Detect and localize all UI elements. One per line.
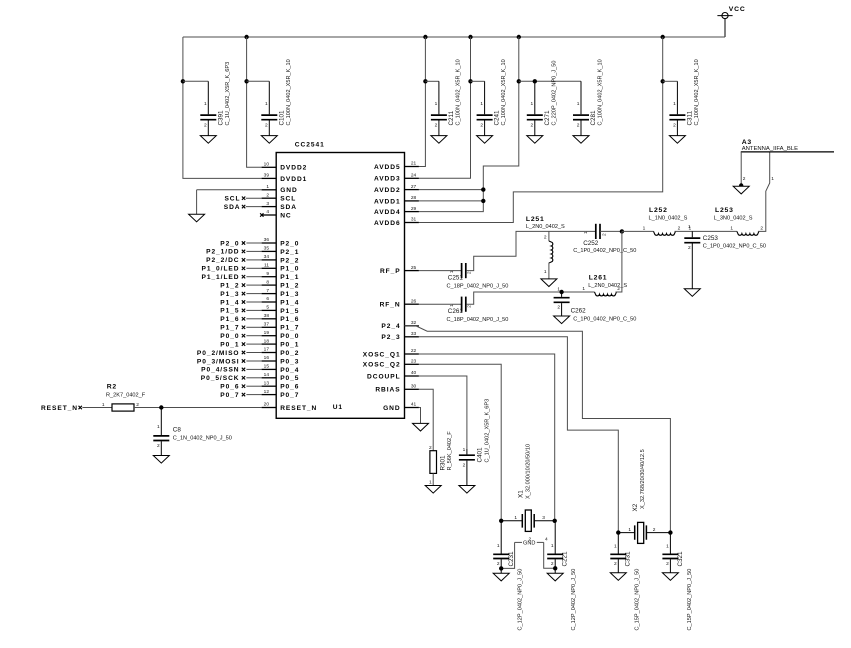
svg-text:P0_5: P0_5 <box>280 375 299 382</box>
svg-text:1: 1 <box>551 543 554 549</box>
svg-text:27: 27 <box>411 184 417 190</box>
svg-text:R301: R301 <box>439 455 446 471</box>
svg-text:C221: C221 <box>561 551 568 567</box>
node X2 pin2 node <box>668 530 672 534</box>
ground C281 <box>573 136 589 144</box>
no-connect x P2_2/DC <box>242 258 245 261</box>
svg-text:C_1U_0402_X5R_K_6P3: C_1U_0402_X5R_K_6P3 <box>484 399 490 463</box>
wire P1_6 <box>246 318 261 320</box>
wire P1_5 <box>246 309 261 311</box>
svg-text:P1_3: P1_3 <box>280 291 299 298</box>
svg-text:R_2K7_0402_F: R_2K7_0402_F <box>106 393 146 399</box>
wire branch to C391 <box>183 80 208 82</box>
svg-text:C_15P_0402_NP0_J_50: C_15P_0402_NP0_J_50 <box>634 569 640 631</box>
svg-text:P2_2/DC: P2_2/DC <box>206 257 239 264</box>
svg-text:P2_1/DD: P2_1/DD <box>206 249 239 256</box>
svg-text:25: 25 <box>411 265 417 271</box>
svg-text:12: 12 <box>264 389 270 395</box>
svg-text:2: 2 <box>531 122 534 128</box>
svg-text:40: 40 <box>411 370 417 376</box>
svg-text:1: 1 <box>582 286 585 292</box>
svg-text:23: 23 <box>411 359 417 365</box>
node C101 tap <box>244 79 248 83</box>
wire net VCC top rail <box>183 36 725 38</box>
svg-text:P1_2: P1_2 <box>220 282 239 289</box>
no-connect x P1_4 <box>242 300 245 303</box>
svg-text:C_12P_0402_NP0_J_50: C_12P_0402_NP0_J_50 <box>571 569 577 631</box>
wire RESET_N to R2 <box>82 407 112 409</box>
svg-text:2: 2 <box>429 445 432 451</box>
no-connect x P0_2/MISO <box>242 351 245 354</box>
svg-text:11: 11 <box>264 263 269 269</box>
wire L251 bottom lead <box>548 263 550 279</box>
node VCC rail junction x=518.8 <box>517 35 521 39</box>
no-connect x P1_5 <box>242 309 245 312</box>
svg-text:C_100N_0402_X5R_K_10: C_100N_0402_X5R_K_10 <box>501 59 507 125</box>
svg-text:1: 1 <box>429 479 432 485</box>
capacitor C8 <box>153 408 169 456</box>
svg-text:AVDD2: AVDD2 <box>374 187 401 194</box>
capacitor C252 <box>596 224 600 239</box>
svg-text:P0_7: P0_7 <box>220 392 239 399</box>
svg-text:P0_4: P0_4 <box>280 367 299 374</box>
svg-text:13: 13 <box>264 380 270 386</box>
svg-text:1: 1 <box>435 101 438 107</box>
svg-text:1: 1 <box>480 101 483 107</box>
svg-text:36: 36 <box>264 237 270 243</box>
svg-text:XOSC_Q2: XOSC_Q2 <box>363 362 401 369</box>
svg-text:SDA: SDA <box>224 204 241 211</box>
svg-text:1: 1 <box>449 270 455 273</box>
wire P2_0 <box>246 242 261 244</box>
wire VCC to DVDD1 pin39 <box>183 37 262 178</box>
ground C321 <box>662 573 678 581</box>
svg-text:RF_N: RF_N <box>380 302 401 309</box>
wire RF_P to C251 <box>419 270 462 272</box>
svg-text:C_1U_0402_X5R_K_6P3: C_1U_0402_X5R_K_6P3 <box>225 62 231 126</box>
svg-text:RBIAS: RBIAS <box>375 387 400 394</box>
svg-text:1: 1 <box>577 101 580 107</box>
svg-text:RF_P: RF_P <box>380 268 401 275</box>
node VCC rail junction x=662.7 <box>661 35 665 39</box>
capacitor C331 <box>610 533 626 573</box>
wire P0_2/MISO <box>246 352 261 354</box>
svg-text:2: 2 <box>529 536 532 542</box>
svg-text:41: 41 <box>411 402 417 408</box>
svg-text:2: 2 <box>653 527 656 533</box>
svg-text:P2_0: P2_0 <box>280 240 299 247</box>
svg-text:1: 1 <box>449 304 455 307</box>
wire P1_3 <box>246 293 261 295</box>
wire P0_5/SCK <box>246 377 261 379</box>
svg-text:2: 2 <box>602 233 608 236</box>
wire P2_4 to X2 pin2 <box>405 326 671 533</box>
svg-text:C321: C321 <box>677 551 684 567</box>
svg-text:P1_7: P1_7 <box>220 325 239 332</box>
ground pin1 GND <box>189 214 205 222</box>
svg-text:P2_3: P2_3 <box>381 334 400 341</box>
capacitor C101 <box>261 81 277 135</box>
svg-text:2: 2 <box>136 402 139 408</box>
power symbol VCC <box>717 6 745 37</box>
svg-text:2: 2 <box>688 245 691 251</box>
wire L252 to L253 <box>675 230 737 232</box>
svg-text:P2_1: P2_1 <box>280 249 299 256</box>
svg-text:P0_0: P0_0 <box>220 333 239 340</box>
wire P2_4 stub ext <box>416 325 419 327</box>
svg-text:33: 33 <box>411 331 417 337</box>
svg-text:38: 38 <box>264 313 270 319</box>
svg-text:P1_3: P1_3 <box>220 291 239 298</box>
wire RF_N to C261 <box>419 303 462 305</box>
wire P1_7 <box>246 326 261 328</box>
svg-text:RESET_N: RESET_N <box>41 405 78 412</box>
svg-text:P1_5: P1_5 <box>280 308 299 315</box>
svg-text:1: 1 <box>666 544 669 550</box>
no-connect x P1_2 <box>242 283 245 286</box>
wire C261 to L261 <box>466 292 594 304</box>
node C211 tap <box>423 79 427 83</box>
svg-text:GND: GND <box>280 187 298 194</box>
svg-text:2: 2 <box>577 122 580 128</box>
wire GND pin1 drop <box>196 190 198 214</box>
wire GND pin1 to ground <box>197 189 262 191</box>
no-connect x P1_3 <box>242 292 245 295</box>
node X1 pin1 node <box>499 519 503 523</box>
node C311 tap <box>661 79 665 83</box>
svg-text:U1: U1 <box>333 404 343 411</box>
ground C241 <box>477 136 493 144</box>
svg-text:AVDD3: AVDD3 <box>374 176 401 183</box>
capacitor C211 <box>431 81 447 135</box>
svg-text:AVDD4: AVDD4 <box>374 209 401 216</box>
svg-text:1: 1 <box>266 184 269 190</box>
wire P2_3 to X2 pin1 <box>419 337 618 533</box>
U1 left pin stubs <box>262 167 277 407</box>
node C271 tap <box>533 79 537 83</box>
svg-text:L252: L252 <box>649 207 668 214</box>
node C231 bottom node <box>499 566 503 570</box>
svg-text:2: 2 <box>673 122 676 128</box>
svg-text:1: 1 <box>771 176 774 182</box>
no-connect x NC pin4 <box>260 213 263 216</box>
ground C8 <box>153 456 169 464</box>
svg-text:VCC: VCC <box>729 6 746 13</box>
wire P1_1/LED <box>246 276 261 278</box>
node C221 bottom node <box>553 566 557 570</box>
svg-text:L253: L253 <box>715 207 734 214</box>
svg-text:31: 31 <box>411 217 417 223</box>
ground C221 <box>547 573 563 581</box>
svg-text:1: 1 <box>463 447 466 453</box>
capacitor C281 <box>573 81 589 135</box>
svg-text:P1_6: P1_6 <box>220 316 239 323</box>
wire XOSC_Q1 to X1 pin3 <box>419 354 555 521</box>
capacitor C231 <box>493 521 509 574</box>
wire VCC to AVDD5 pin21 <box>419 37 426 167</box>
ground R301 <box>425 486 441 494</box>
svg-text:P1_7: P1_7 <box>280 325 299 332</box>
svg-text:P0_7: P0_7 <box>280 392 299 399</box>
node VCC rail junction x=246.6 <box>244 35 248 39</box>
svg-text:C401: C401 <box>476 447 483 463</box>
svg-text:1: 1 <box>514 515 517 521</box>
svg-text:15: 15 <box>264 364 270 370</box>
svg-text:P1_6: P1_6 <box>280 316 299 323</box>
wire branch to C271/C281 <box>519 80 581 82</box>
svg-text:1: 1 <box>531 101 534 107</box>
svg-text:P0_3: P0_3 <box>280 358 299 365</box>
node RESET_N / C8 junction <box>159 405 163 409</box>
U1 left pin numbers <box>264 162 270 408</box>
IC U1 CC2541 body <box>276 153 404 419</box>
svg-text:2: 2 <box>480 122 483 128</box>
inductor L251 coil <box>549 241 553 263</box>
ground C391 <box>200 136 216 144</box>
svg-text:C_100N_0402_X5R_K_10: C_100N_0402_X5R_K_10 <box>286 59 292 125</box>
svg-text:X_32.000/10/20/50/10: X_32.000/10/20/50/10 <box>526 444 532 499</box>
capacitor C401 <box>459 449 475 486</box>
wire C251 to balun top <box>466 231 596 270</box>
U1 right pin stubs <box>405 167 419 408</box>
no-connect x RESET_N <box>79 406 82 409</box>
no-connect x P1_7 <box>242 326 245 329</box>
ground C211 <box>431 136 447 144</box>
svg-text:C_220P_0402_NP0_J_50: C_220P_0402_NP0_J_50 <box>551 60 557 125</box>
no-connect x P0_7 <box>242 393 245 396</box>
svg-text:18: 18 <box>264 338 270 344</box>
svg-text:3: 3 <box>266 201 269 207</box>
svg-text:P1_1: P1_1 <box>280 274 299 281</box>
crystal X1 <box>501 510 555 531</box>
svg-text:19: 19 <box>264 330 270 336</box>
svg-text:37: 37 <box>264 322 270 328</box>
node balun mid node <box>620 229 624 233</box>
svg-text:2: 2 <box>743 176 746 182</box>
svg-text:1: 1 <box>730 225 733 231</box>
svg-text:L_1N0_0402_S: L_1N0_0402_S <box>649 216 688 222</box>
no-connect x P1_6 <box>242 317 245 320</box>
svg-text:1: 1 <box>102 402 105 408</box>
svg-text:P0_0: P0_0 <box>280 333 299 340</box>
capacitor C321 <box>662 533 678 573</box>
svg-text:1: 1 <box>204 101 207 107</box>
ground C271 <box>527 136 543 144</box>
wire SCL <box>246 197 262 199</box>
svg-text:2: 2 <box>466 271 472 274</box>
wire P1_4 <box>246 301 261 303</box>
ground C253 <box>684 289 700 297</box>
svg-text:C281: C281 <box>590 110 597 126</box>
svg-text:2: 2 <box>265 122 268 128</box>
inductor L253 coil <box>737 231 759 235</box>
svg-text:C253: C253 <box>703 235 719 242</box>
svg-text:P1_4: P1_4 <box>220 299 239 306</box>
no-connect x P2_0 <box>242 241 245 244</box>
node X1 pin3 node <box>553 519 557 523</box>
svg-text:NC: NC <box>280 212 291 219</box>
svg-text:C262: C262 <box>571 308 587 315</box>
svg-text:P0_2/MISO: P0_2/MISO <box>197 350 240 357</box>
svg-text:C_18P_0402_NP0_J_50: C_18P_0402_NP0_J_50 <box>447 283 509 289</box>
svg-text:2: 2 <box>678 225 681 231</box>
svg-text:1: 1 <box>643 225 646 231</box>
no-connect x P0_3/MOSI <box>242 359 245 362</box>
svg-text:24: 24 <box>411 173 417 179</box>
svg-text:2: 2 <box>266 192 269 198</box>
no-connect x P0_5/SCK <box>242 376 245 379</box>
svg-text:30: 30 <box>411 384 417 390</box>
svg-text:X_32.768/20/30/40/12.5: X_32.768/20/30/40/12.5 <box>640 449 646 509</box>
ground pin41 <box>413 423 429 431</box>
ground C311 <box>669 136 685 144</box>
wire X1 pin2 tie left <box>515 541 522 543</box>
wire P1_2 <box>246 284 261 286</box>
svg-text:P1_2: P1_2 <box>280 283 299 290</box>
capacitor C262 <box>554 292 570 316</box>
no-connect x P1_0/LED <box>242 267 245 270</box>
svg-text:4: 4 <box>545 536 548 542</box>
wire node to L252 <box>622 230 654 232</box>
svg-text:C241: C241 <box>494 110 501 126</box>
wire branch to C311 <box>663 80 678 82</box>
wire C252 to L252 node <box>600 230 622 232</box>
capacitor C391 <box>200 81 216 135</box>
svg-text:P1_0/LED: P1_0/LED <box>201 266 239 273</box>
wire L251 top lead <box>548 231 550 241</box>
svg-text:CC2541: CC2541 <box>295 142 325 149</box>
svg-text:26: 26 <box>411 298 417 304</box>
svg-text:L251: L251 <box>526 216 545 223</box>
svg-text:SCL: SCL <box>224 196 240 203</box>
wire L261 to balun mid node <box>616 231 622 292</box>
svg-text:GND: GND <box>383 405 401 412</box>
no-connect x P2_1/DD <box>242 250 245 253</box>
wire VCC to DVDD2 pin10 <box>247 37 262 167</box>
no-connect x P0_1 <box>242 342 245 345</box>
svg-text:1: 1 <box>157 424 160 430</box>
svg-text:1: 1 <box>497 543 500 549</box>
svg-text:1: 1 <box>614 544 617 550</box>
capacitor C221 <box>547 521 563 574</box>
ground C262 <box>554 316 570 324</box>
crystal X2 <box>618 522 670 543</box>
svg-text:C_1P0_0402_NP0_C_50: C_1P0_0402_NP0_C_50 <box>573 248 636 254</box>
svg-text:C_100N_0402_X5R_K_10: C_100N_0402_X5R_K_10 <box>694 59 700 125</box>
svg-text:P2_0: P2_0 <box>220 240 239 247</box>
svg-text:RESET_N: RESET_N <box>280 405 317 412</box>
svg-text:35: 35 <box>264 246 270 252</box>
svg-text:DVDD1: DVDD1 <box>280 176 307 183</box>
no-connect x P0_4/SSN <box>242 368 245 371</box>
node C241 tap <box>468 79 472 83</box>
ground C101 <box>261 136 277 144</box>
node C262 tap <box>559 290 563 294</box>
svg-text:XOSC_Q1: XOSC_Q1 <box>363 351 401 358</box>
svg-text:AVDD1: AVDD1 <box>374 198 401 205</box>
svg-text:P0_2: P0_2 <box>280 350 299 357</box>
wire VCC to AVDD3 pin24 <box>419 37 471 178</box>
svg-text:2: 2 <box>204 122 207 128</box>
capacitor C241 <box>477 81 493 135</box>
wire VCC to AVDD2/1/4 bus <box>419 37 519 212</box>
wire branch to C241 <box>471 80 485 82</box>
capacitor C271 <box>527 81 543 135</box>
capacitor C251 <box>462 263 466 278</box>
ground C331 <box>610 573 626 581</box>
svg-text:2: 2 <box>557 305 560 311</box>
svg-text:2: 2 <box>614 561 617 567</box>
svg-text:C_1P0_0402_NP0_C_50: C_1P0_0402_NP0_C_50 <box>703 244 766 250</box>
svg-text:ANTENNA_IIFA_BLE: ANTENNA_IIFA_BLE <box>742 146 798 152</box>
wire P0_0 <box>246 335 261 337</box>
svg-text:P1_0: P1_0 <box>280 266 299 273</box>
svg-text:6: 6 <box>266 296 269 302</box>
svg-text:P0_6: P0_6 <box>220 384 239 391</box>
svg-text:1: 1 <box>265 101 268 107</box>
svg-text:P0_5/SCK: P0_5/SCK <box>201 375 240 382</box>
svg-text:C331: C331 <box>625 551 632 567</box>
svg-text:C_100N_0402_X5R_K_10: C_100N_0402_X5R_K_10 <box>456 59 462 125</box>
svg-text:32: 32 <box>411 320 417 326</box>
no-connect x SDA <box>242 205 245 208</box>
wire X1 pin4 tie right <box>537 541 544 543</box>
svg-text:1: 1 <box>688 224 691 230</box>
svg-text:SCL: SCL <box>280 196 296 203</box>
no-connect x P0_0 <box>242 334 245 337</box>
svg-text:2: 2 <box>760 225 763 231</box>
svg-text:C252: C252 <box>583 240 599 247</box>
wire P0_7 <box>246 394 261 396</box>
svg-text:28: 28 <box>411 195 417 201</box>
svg-text:1: 1 <box>557 286 560 292</box>
svg-text:20: 20 <box>264 402 270 408</box>
svg-text:16: 16 <box>264 355 270 361</box>
svg-text:8: 8 <box>266 279 269 285</box>
svg-text:C271: C271 <box>544 110 551 126</box>
svg-text:P0_3/MOSI: P0_3/MOSI <box>197 358 240 365</box>
capacitor C311 <box>669 81 685 135</box>
wire P0_6 <box>246 385 261 387</box>
wire branch to C211 <box>425 80 439 82</box>
svg-text:C261: C261 <box>448 308 464 315</box>
svg-text:2: 2 <box>435 122 438 128</box>
svg-text:P1_1/LED: P1_1/LED <box>201 274 239 281</box>
svg-text:DCOUPL: DCOUPL <box>367 373 401 380</box>
resistor R2 <box>112 404 134 411</box>
svg-text:C_18P_0402_NP0_J_50: C_18P_0402_NP0_J_50 <box>447 317 509 323</box>
svg-text:34: 34 <box>264 254 270 260</box>
svg-text:39: 39 <box>264 173 270 179</box>
svg-text:C391: C391 <box>217 110 224 126</box>
svg-text:P0_1: P0_1 <box>280 342 299 349</box>
svg-text:L261: L261 <box>589 275 608 282</box>
U1 right pin numbers <box>411 161 417 408</box>
wire pin41 to ground <box>419 408 421 424</box>
svg-text:R_56K_0402_F: R_56K_0402_F <box>447 431 453 471</box>
U1 left pin names <box>280 165 317 412</box>
svg-text:C311: C311 <box>686 110 693 125</box>
wire AVDD1 pin28 <box>419 200 483 202</box>
svg-text:C211: C211 <box>448 110 455 125</box>
svg-text:P0_1: P0_1 <box>220 341 239 348</box>
node C271 branch tap <box>517 79 521 83</box>
wire P2_2/DC <box>246 259 261 261</box>
svg-text:P0_4/SSN: P0_4/SSN <box>201 367 239 374</box>
svg-text:A3: A3 <box>742 139 752 146</box>
svg-text:P1_4: P1_4 <box>280 299 299 306</box>
svg-text:2: 2 <box>617 286 620 292</box>
